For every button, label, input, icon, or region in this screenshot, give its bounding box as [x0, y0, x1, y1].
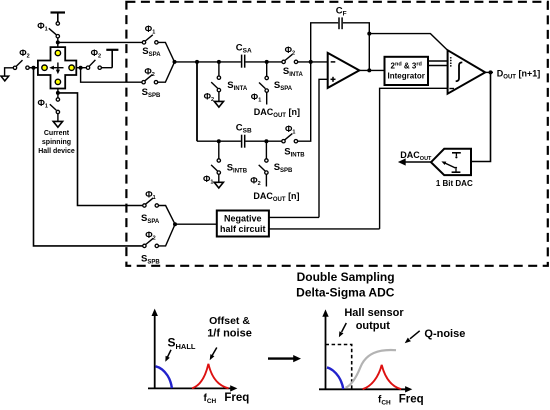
label S_SPB (top)	[142, 87, 161, 99]
label DAC_OUT (output arrow)	[400, 150, 432, 162]
wire: negative half circuit output 1 (to op-amp +)	[269, 216, 319, 218]
wire: S_INTA to op-amp inverting input	[298, 61, 328, 63]
wire: feedback up from inverting node	[311, 23, 339, 62]
arrow: S_HALL to blue curve	[165, 350, 171, 362]
wire: S_INTB ground branch	[218, 141, 220, 159]
wire: hall bottom node to lower S_SPA switch	[58, 93, 143, 206]
label Q-noise	[424, 328, 465, 340]
wire: switch to ground stem	[218, 92, 220, 102]
wire: C_F to op-amp output	[343, 23, 369, 71]
right spectrum: x axis	[319, 386, 412, 392]
wire: hall right node down and to S_SPB	[81, 68, 142, 83]
wire: DAC_OUT[n] branch B	[265, 141, 267, 159]
right spectrum: red noise peak	[363, 365, 402, 389]
svg-text:Freq: Freq	[224, 392, 249, 404]
wire: S_SPB output diagonal to summing node	[158, 62, 175, 82]
label C_SA	[236, 43, 252, 55]
switch S_SPA (phi1, top input)	[142, 35, 158, 44]
right spectrum: dashed ideal filter step	[326, 345, 352, 390]
wire: negative half circuit output 2 (to comparator -)	[269, 228, 380, 230]
left spectrum: blue hall signal curve	[156, 366, 172, 388]
comparator U3 (quantizer with hysteresis)	[448, 50, 486, 93]
svg-text:1 Bit DAC: 1 Bit DAC	[436, 179, 473, 188]
capacitor C_SB	[242, 135, 245, 148]
wire: hall top contact stem	[57, 38, 59, 47]
node: comparator feed branch on feedback	[367, 32, 371, 36]
node: op-amp output junction	[367, 68, 371, 72]
label DAC_OUT [n] (B)	[253, 191, 299, 203]
svg-text:Integrator: Integrator	[388, 72, 425, 81]
wire: comparator lower input from negative half circuit	[380, 88, 448, 229]
node: lower input junction	[173, 222, 177, 226]
hall contact left (yellow)	[42, 65, 47, 70]
ground (S_INTA branch)	[214, 101, 223, 107]
label S_SPA (lower)	[141, 213, 160, 225]
label Hall sensor output	[344, 307, 404, 332]
left spectrum: x axis	[148, 385, 237, 391]
switch S_SPB (phi2, top input)	[142, 75, 158, 84]
block: Negative half circuit	[217, 211, 269, 237]
capacitor C_SA	[242, 55, 245, 68]
label phi2 (S_INTA top)	[285, 45, 295, 57]
label phi2 (hall right switch)	[91, 48, 101, 60]
wire: op-amp output to integrator box	[359, 69, 384, 71]
switch S_INTB (phi1, to ground)	[211, 159, 220, 175]
arrow: label to red peak	[210, 348, 217, 361]
wire: right switch to T2	[101, 67, 112, 69]
svg-text:Hall device: Hall device	[38, 148, 75, 155]
left spectrum: y axis	[152, 309, 158, 389]
label S_INTB (row B)	[284, 146, 305, 158]
wire: lower S_SPB diagonal to junction	[159, 224, 176, 246]
switch S_SPA (phi1, DAC feedback A)	[259, 76, 268, 92]
wire: lower S_SPA diagonal to junction	[159, 206, 176, 225]
block U2: 2nd & 3rd Integrator	[385, 57, 429, 85]
label: Double Sampling Delta-Sigma ADC	[296, 270, 395, 299]
arrow: label to dashed step	[339, 323, 346, 337]
label S_HALL	[168, 335, 196, 351]
label phi1 (S_INTB ground switch)	[203, 174, 213, 186]
svg-text:spinning: spinning	[42, 139, 71, 146]
arrow: transform between plots	[268, 355, 301, 362]
label phi1 (lower S_SPA)	[145, 189, 155, 201]
right spectrum: blue hall signal curve	[327, 367, 343, 389]
label S_SPB (DAC switch B)	[274, 162, 293, 174]
wire: S_SPA output diagonal to summing node	[158, 42, 174, 62]
wire: D_OUT down to 1 bit DAC	[471, 72, 491, 161]
wire: bottom switch to ground	[57, 114, 59, 122]
svg-text:Hall sensor: Hall sensor	[344, 307, 404, 319]
Hall plate (cross shaped hall device)	[38, 47, 76, 88]
label Offset & 1/f noise	[207, 315, 252, 339]
wire: main row to C_SA left plate	[175, 61, 241, 63]
node: hall left junction	[32, 66, 36, 70]
label 1 Bit DAC	[436, 179, 473, 188]
wire: branch down to C_SB row	[196, 62, 198, 141]
switch phi2 (hall left to ground)	[13, 60, 29, 69]
wire: junction to negative half circuit	[175, 223, 217, 225]
hall current arrow (left pointing)	[49, 66, 63, 70]
ground (below hall)	[53, 121, 62, 127]
node: hall top (junction dot)	[56, 40, 60, 44]
label S_SPB (lower)	[141, 253, 160, 265]
arrow: Q-noise to grey curve	[405, 331, 420, 344]
svg-text:Freq: Freq	[399, 394, 424, 406]
node: branch to S_INTB ground switch	[217, 139, 221, 143]
wire: left switch to ground	[5, 68, 14, 76]
hall contact top (yellow)	[55, 50, 60, 55]
wire: hall bottom contact stem	[57, 89, 59, 98]
svg-text:Offset &: Offset &	[209, 315, 250, 327]
wire: C_SB row left segment	[197, 140, 241, 142]
switch phi1 (hall top bias)	[49, 22, 60, 38]
hall contact right (yellow)	[69, 65, 74, 70]
ground (far left)	[1, 76, 9, 81]
label phi1 (S_SPA top)	[145, 24, 155, 36]
switch S_SPA (phi1, lower pair)	[143, 198, 159, 207]
node: branch to S_INTA ground switch	[217, 60, 221, 64]
label S_INTA (ground switch)	[227, 80, 248, 92]
wire: hall right contact to phi2 switch	[76, 67, 86, 69]
wire: integrator output bus (2 lines)	[428, 61, 448, 66]
block U4: 1 Bit DAC	[431, 149, 471, 175]
svg-text:1/f noise: 1/f noise	[207, 328, 252, 340]
switch phi2 (hall right bias)	[86, 60, 101, 70]
svg-text:Double Sampling: Double Sampling	[297, 270, 395, 284]
label phi2 (hall left switch)	[19, 48, 29, 60]
node: branch to C_SB row	[195, 60, 199, 64]
label phi2 (DAC switch B)	[250, 176, 260, 188]
wire: hall left contact to phi2 switch	[29, 67, 38, 69]
right spectrum: y axis	[322, 309, 328, 389]
label f_CH (left plot)	[204, 393, 217, 405]
hall current arrow (down pointing)	[56, 63, 60, 75]
label phi1 (hall bottom switch)	[38, 98, 48, 110]
node: DAC feed junction (C_SB right)	[264, 139, 268, 143]
label Freq (right plot)	[399, 394, 424, 406]
svg-text:output: output	[356, 320, 391, 332]
op-amp U1	[328, 53, 360, 88]
node: hall right junction	[79, 66, 83, 70]
label phi2 (S_INTA ground switch)	[204, 91, 214, 103]
node: DAC feed junction (C_SA right)	[265, 60, 269, 64]
node: input summing junction A	[173, 60, 177, 64]
label Freq (left plot)	[224, 392, 249, 404]
wire: DAC switch A stem	[266, 92, 268, 104]
wire: op-amp non-inverting input from negative half circuit	[319, 79, 328, 217]
label phi1 (S_INTB top)	[285, 124, 295, 136]
switch S_INTA (phi2, to op-amp minus)	[282, 54, 298, 63]
node: D_OUT junction	[489, 70, 493, 74]
bias current source T2 (right)	[106, 50, 118, 68]
label phi1 (DAC switch A)	[251, 92, 261, 104]
label C_SB	[236, 122, 252, 134]
wire: C_SB right plate to switch S_INTB	[245, 140, 281, 142]
svg-text:Negative: Negative	[224, 214, 262, 224]
label phi2 (S_SPB top)	[144, 67, 154, 79]
wire: comparator output	[485, 71, 493, 73]
wire: switch to ground stem B	[218, 174, 220, 182]
label S_SPA (top)	[142, 46, 161, 58]
bias current source T1 (top)	[51, 13, 66, 22]
label: Current spinning Hall device	[38, 130, 75, 155]
switch S_SPB (phi2, lower pair)	[143, 238, 159, 247]
wire: DAC output arrow	[398, 158, 431, 165]
capacitor C_F	[339, 17, 342, 29]
svg-text:Delta-Sigma ADC: Delta-Sigma ADC	[296, 285, 395, 299]
right spectrum: grey Q-noise curve	[346, 350, 397, 388]
label DAC_OUT [n] (A)	[254, 107, 300, 119]
switch phi1 (hall bottom to ground)	[50, 98, 60, 114]
label f_CH (right plot)	[378, 394, 391, 406]
wire: feedback node to comparator top corner	[369, 34, 447, 51]
switch S_SPB (phi2, DAC feedback B)	[259, 159, 268, 175]
wire: S_INTB output up to inverting input node	[298, 62, 311, 141]
label C_F	[336, 5, 347, 17]
left spectrum: red offset and 1/f noise peak	[192, 364, 229, 389]
svg-text:Q-noise: Q-noise	[424, 328, 465, 340]
hall contact bottom (yellow)	[55, 79, 60, 84]
label D_OUT [n+1]	[497, 68, 540, 80]
wire: C_SA right plate to switch S_INTA	[245, 61, 282, 63]
wire: DAC_OUT[n] branch A	[266, 62, 268, 76]
svg-text:half circuit: half circuit	[220, 224, 266, 234]
switch S_INTA (phi2, to ground)	[211, 76, 220, 92]
dashed boundary: Double Sampling Delta-Sigma ADC	[126, 2, 547, 266]
svg-text:Current: Current	[44, 130, 70, 137]
label phi1 (hall top switch)	[37, 21, 47, 33]
wire: hall left node down to lower S_SPB switch	[34, 68, 143, 246]
wire: S_INTA ground branch	[218, 62, 220, 76]
label S_INTB (ground switch)	[227, 163, 248, 175]
label S_SPA (DAC switch A)	[274, 80, 293, 92]
label phi2 (lower S_SPB)	[145, 230, 155, 242]
node: op-amp inverting input / feedback junction	[309, 60, 313, 64]
label S_INTA (top row)	[283, 66, 304, 78]
wire: DAC switch B stem	[265, 174, 267, 186]
wire: hall top node to switch S_SPA	[58, 41, 143, 43]
node: hall bottom junction	[56, 91, 60, 95]
ground (S_INTB branch)	[214, 182, 223, 188]
switch S_INTB (phi1, to op-amp minus)	[282, 134, 298, 143]
